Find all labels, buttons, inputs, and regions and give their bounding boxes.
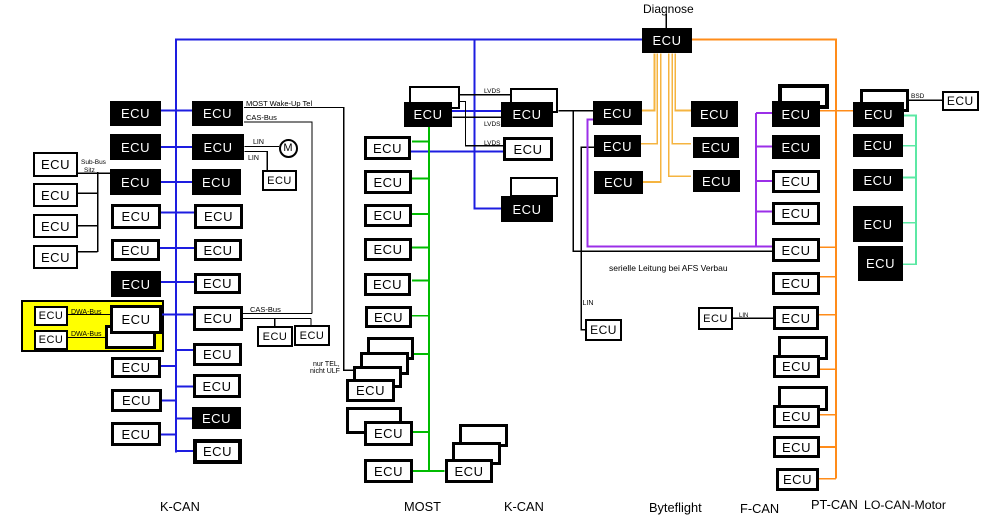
wire K-CAN row 9 left <box>162 400 176 402</box>
wire LVDS 3 <box>460 102 503 146</box>
ECU TEL stack front <box>346 379 395 402</box>
wire MOST bottom pair <box>413 470 445 472</box>
ECU K-CAN colB row6 <box>194 273 241 294</box>
wire orange F-CAN row7 <box>819 314 836 316</box>
wire orange F-CAN row1 <box>820 110 836 112</box>
bus K-CAN (blue vertical + top run to Diagnose) <box>176 40 642 453</box>
ECU MOST stack2 back <box>346 407 402 434</box>
wire MOST row5 <box>412 280 429 282</box>
wire MOST row4 <box>412 247 429 249</box>
ECU Byteflight R1 <box>691 101 738 127</box>
label LIN lower <box>248 155 259 162</box>
wire LIN to ECU below <box>245 152 268 171</box>
caption K-CAN 2 <box>504 501 544 514</box>
ECU K-CAN colB row9 <box>193 374 241 398</box>
wire sub-bus seat 4 <box>78 251 98 253</box>
wire LIN to motor <box>245 146 279 148</box>
ECU Byteflight L1 <box>593 101 642 125</box>
ECU CAS key 1 <box>257 326 293 347</box>
wire BSD <box>909 99 943 101</box>
ECU F-CAN row9 <box>773 405 820 428</box>
caption LO-CAN-Motor <box>864 499 946 511</box>
wire K-CAN row 10 right <box>176 418 192 420</box>
wire sub-bus seat 3 <box>78 225 98 227</box>
wire MOST row3 <box>412 213 429 215</box>
wire blue MOST head to cluster <box>452 110 503 112</box>
label CAS-Bus upper <box>246 114 277 122</box>
ECU K-CAN2 top <box>501 102 553 127</box>
ECU K-CAN colB row1 <box>192 101 243 126</box>
wire K-CAN row 8 left <box>161 365 176 367</box>
ECU F-CAN row8 shadow <box>778 336 828 360</box>
bus MOST (green) <box>428 127 430 471</box>
ECU seat sub-bus 4 <box>33 245 78 269</box>
label LVDS 3 <box>484 141 501 148</box>
ECU K-CAN colA row7 (DWA) <box>110 305 162 334</box>
wire MOST TEL stack <box>414 353 429 355</box>
ECU K-CAN2 low <box>501 196 553 222</box>
label Sub-Bus <box>81 160 106 167</box>
ECU Byteflight R3 <box>693 170 740 192</box>
ECU F-CAN row3 <box>772 170 820 193</box>
ECU F-CAN row1 <box>772 101 820 127</box>
bus Byteflight (purple U) <box>588 119 773 246</box>
ECU Byteflight LIN slave <box>585 319 622 341</box>
ECU Byteflight L2 <box>594 135 641 157</box>
ECU LIN slave <box>262 170 297 191</box>
ECU F-CAN row2 <box>772 135 820 159</box>
ECU BSD node <box>942 91 979 111</box>
wire orange F-CAN row10 <box>820 446 836 448</box>
wire orange F-CAN row8 <box>820 368 836 370</box>
wire MOST Wake-Up Tel <box>244 108 353 371</box>
wire purple F-CAN row3 <box>756 180 772 182</box>
wire diagnose gold 1 <box>642 53 654 110</box>
ECU DWA 1 <box>34 306 68 326</box>
wire K-CAN row 11 right <box>176 450 193 452</box>
label BSD <box>911 94 924 101</box>
ECU K-CAN colB row8 <box>193 343 242 366</box>
wire diagnose stem <box>665 14 667 29</box>
ECU K-CAN colA row2 <box>110 134 161 160</box>
ECU K-CAN colA row3 <box>110 169 161 195</box>
label DWA-Bus 2 <box>71 331 101 338</box>
ECU LO-CAN row4 <box>853 206 903 242</box>
label DWA-Bus 1 <box>71 309 101 316</box>
label Sitz <box>84 168 95 175</box>
ECU MOST stack2 front <box>364 421 413 446</box>
ECU MOST row4 <box>364 238 412 261</box>
label nicht ULF <box>310 368 340 375</box>
wire K-CAN row 4 <box>161 212 194 214</box>
ECU seat sub-bus 2 <box>33 183 78 207</box>
caption MOST <box>404 501 441 514</box>
ECU K-CAN colA row4 <box>111 204 161 229</box>
wire Sub-Bus Sitz trunk <box>78 172 110 252</box>
ECU K-CAN2 mid <box>503 137 553 161</box>
ECU K-CAN colA row9 <box>111 389 162 412</box>
wire K-CAN row 3 <box>161 181 193 183</box>
label nur TEL <box>313 361 340 368</box>
wire MOST row1 <box>412 141 429 143</box>
label LIN byteflight right <box>739 313 748 319</box>
wire LVDS 1 <box>460 94 511 96</box>
ECU MOST row5 <box>364 273 411 296</box>
label LVDS 2 <box>484 122 501 129</box>
ECU F-CAN row4 <box>772 202 820 225</box>
caption PT-CAN <box>811 499 858 512</box>
ECU Byteflight L3 <box>594 171 643 194</box>
ECU LO-CAN row3 <box>853 169 903 191</box>
wire orange F-CAN row9 <box>820 414 836 416</box>
bus PT-CAN (orange) <box>692 39 836 478</box>
caption F-CAN <box>740 503 779 516</box>
ECU TEL stack 2 <box>360 352 409 375</box>
ECU MOST bottom <box>364 459 413 483</box>
ECU K-CAN colA row7 hidden twin <box>105 325 156 349</box>
wire K-CAN row 5 <box>160 247 194 249</box>
ECU F-CAN top shadow <box>778 84 829 109</box>
wire MOST row2 <box>412 178 429 180</box>
wire diagnose gold 2 <box>641 53 657 143</box>
wire LVDS 2 <box>453 116 502 118</box>
ECU MOST row2 <box>364 170 412 194</box>
ECU K-CAN colB row5 <box>194 239 242 261</box>
ECU Diagnose <box>642 28 692 53</box>
ECU F-CAN row7 <box>773 306 819 330</box>
wire blue MOST box1 to display <box>411 151 503 153</box>
wire purple F-CAN row4 <box>756 211 772 213</box>
ECU Byteflight R2 <box>693 137 739 158</box>
ECU K-CAN colA row5 <box>111 239 160 261</box>
bus LO-CAN-Motor (mint) <box>902 116 916 265</box>
ECU K-CAN colB row11 <box>193 439 242 464</box>
wire K-CAN row 8 right <box>176 349 193 351</box>
wire diagnose gold 4 <box>669 53 691 176</box>
ECU K-CAN2 top shadow <box>510 88 558 113</box>
ECU F-CAN row6 <box>772 272 820 295</box>
ECU DWA 2 <box>34 330 68 350</box>
wire MOST row6 <box>412 315 429 317</box>
ECU K-CAN colA row6 <box>111 271 161 297</box>
wire orange F-CAN row5 <box>820 246 836 248</box>
wire K-CAN row 1 <box>161 109 193 111</box>
wire CAS-Bus lower <box>243 313 312 315</box>
wire mint row3 <box>902 177 916 179</box>
wire mint row4 <box>902 222 916 224</box>
ECU K-CAN colB row10 <box>192 407 241 429</box>
ECU K-CAN colB row3 <box>192 169 241 195</box>
label LVDS 1 <box>484 89 501 96</box>
label CAS-Bus lower <box>250 306 281 314</box>
wire purple F-CAN row1 <box>756 112 772 114</box>
ECU K-CAN colB row2 <box>192 134 244 160</box>
wire orange F-CAN row11 <box>819 478 836 480</box>
ECU K-CAN2 low shadow <box>510 177 558 197</box>
ECU K-CAN2 bottom stack mid <box>452 442 501 465</box>
wire purple F-CAN row2 <box>756 145 772 147</box>
wire K-CAN row 6 <box>161 281 194 283</box>
ECU F-CAN row5 <box>772 238 820 262</box>
wire LIN byteflight to F-CAN <box>733 317 773 319</box>
ECU MOST row1 <box>364 136 411 160</box>
ECU LIN node byteflight right <box>698 307 733 330</box>
ECU F-CAN row10 <box>773 436 820 458</box>
ECU seat sub-bus 1 <box>33 152 78 177</box>
wire CAS branch to key boxes <box>243 319 311 327</box>
wire DWA-Bus 1 <box>68 314 110 316</box>
wire MOST stack2 <box>413 431 429 433</box>
ECU LO-CAN top shadow <box>860 89 909 112</box>
ECU TEL stack back <box>367 337 414 360</box>
caption K-CAN <box>160 501 200 514</box>
wire K-CAN row 2 <box>161 146 193 148</box>
wire mint row2 <box>902 145 916 147</box>
wire K-CAN row 10 left <box>161 433 176 435</box>
highlight yellow DWA area <box>21 300 164 352</box>
ECU LO-CAN row1 <box>853 102 904 127</box>
ECU K-CAN2 bottom stack back <box>459 424 508 447</box>
ECU F-CAN row11 <box>776 468 819 491</box>
label Diagnose <box>643 3 694 15</box>
ECU K-CAN colB row7 <box>193 306 243 331</box>
wire blue drop to K-CAN display cluster <box>475 39 501 209</box>
ECU F-CAN row8 <box>773 355 820 378</box>
label serielle Leitung <box>609 264 728 273</box>
ECU K-CAN colA row1 <box>110 101 161 126</box>
ECU MOST row3 <box>364 204 412 227</box>
wire Byteflight LIN drop <box>581 147 594 330</box>
wire K-CAN row 7 <box>162 314 194 316</box>
wire diagnose gold 3 <box>643 53 661 182</box>
ECU K-CAN colB row4 <box>194 204 243 229</box>
label MOST Wake-Up Tel <box>246 100 312 108</box>
wire K-CAN row 9 right <box>176 385 193 387</box>
wire diagnose gold 5 <box>672 53 691 143</box>
motor M circle <box>279 139 298 158</box>
ECU MOST row6 <box>365 306 412 328</box>
ECU F-CAN row9 shadow <box>778 386 828 411</box>
ECU LO-CAN row5 <box>858 246 903 281</box>
ECU K-CAN colA row10 <box>111 422 161 446</box>
ECU K-CAN2 bottom stack front <box>445 459 493 483</box>
wire orange F-CAN row6 <box>820 276 836 278</box>
caption Byteflight <box>649 502 702 515</box>
ECU CAS key 2 <box>294 325 330 346</box>
wire sub-bus seat 2 <box>78 192 98 194</box>
wire diagnose gold 6 <box>675 53 691 110</box>
wire orange to LO-CAN <box>836 110 853 112</box>
bus Byteflight purple riser <box>755 113 757 247</box>
ECU TEL stack 3 <box>353 366 402 388</box>
ECU MOST head shadow <box>409 86 460 109</box>
wire DWA-Bus 2 <box>68 337 105 339</box>
wire to Byteflight from cluster <box>558 110 593 112</box>
ECU seat sub-bus 3 <box>33 214 78 238</box>
label LIN motor <box>253 139 264 146</box>
ECU MOST head <box>404 102 452 127</box>
wire CAS-Bus vertical <box>244 122 312 314</box>
ECU LO-CAN row2 <box>853 134 903 157</box>
label LIN byteflight left <box>583 300 594 307</box>
ECU K-CAN colA row8 <box>111 357 161 378</box>
wire serielle Leitung AFS <box>573 111 772 252</box>
